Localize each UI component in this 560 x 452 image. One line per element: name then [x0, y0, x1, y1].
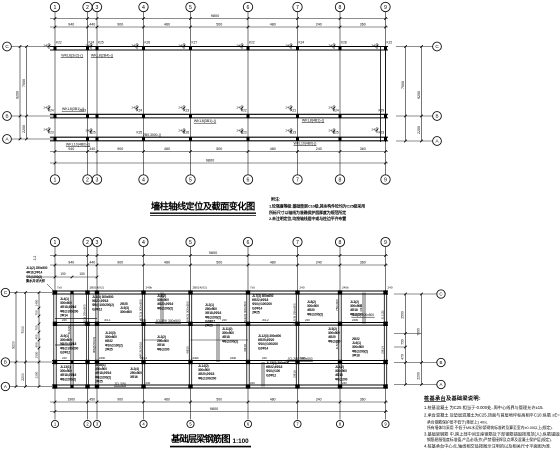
svg-text:7000: 7000	[21, 326, 25, 334]
axis circle B left (top drawing)	[3, 112, 12, 121]
svg-text:墙柱轴线定位及截面变化图: 墙柱轴线定位及截面变化图	[151, 201, 255, 212]
svg-text:2Φ25: 2Φ25	[252, 310, 260, 314]
svg-text:240: 240	[286, 43, 291, 47]
svg-text:5: 5	[189, 5, 192, 11]
left dim line detail (bottom drawing)	[38, 293, 40, 387]
svg-text:9: 9	[384, 240, 387, 246]
svg-text:K25: K25	[137, 131, 143, 135]
svg-text:7000: 7000	[417, 328, 421, 336]
grid line axis 4 (bottom drawing)	[143, 247, 145, 293]
svg-text:1: 1	[54, 240, 57, 246]
svg-text:3: 3	[96, 5, 99, 11]
axis circle 9 bottom (bottom drawing)	[382, 420, 389, 427]
svg-text:2-2: 2-2	[33, 255, 37, 260]
svg-text:240: 240	[44, 105, 49, 109]
svg-text:750x300: 750x300	[335, 299, 339, 311]
svg-text:360: 360	[360, 23, 366, 27]
axis circle 5 bottom (bottom drawing)	[187, 420, 194, 427]
axis circle 5 bottom (top drawing)	[186, 175, 195, 184]
axis circle 2 bottom (top drawing)	[83, 175, 92, 184]
svg-text:7: 7	[296, 5, 299, 11]
beam annotation block	[222, 327, 238, 343]
svg-text:JCL3(9): JCL3(9)	[114, 382, 126, 386]
svg-text:240: 240	[237, 43, 242, 47]
svg-text:WKL10(4B0)-(): WKL10(4B0)-()	[66, 143, 90, 147]
beam annotation block	[60, 334, 78, 354]
foundation beam axis 2	[85, 293, 87, 387]
svg-text:C: C	[439, 292, 442, 297]
svg-text:2.未注明定位,均按轴线居中或与柱边平齐布置: 2.未注明定位,均按轴线居中或与柱边平齐布置	[269, 215, 346, 221]
svg-text:240b: 240b	[230, 356, 237, 360]
svg-text:240: 240	[44, 43, 49, 47]
interior beam x72	[70, 293, 72, 387]
axis circle 6 bottom (top drawing)	[243, 175, 252, 184]
svg-text:700: 700	[35, 310, 39, 315]
svg-text:4Φ18: 4Φ18	[359, 304, 363, 312]
axis circle 8 bottom (bottom drawing)	[336, 420, 343, 427]
foundation beam axis 9	[383, 293, 385, 387]
svg-text:2200: 2200	[417, 126, 421, 134]
axis circle 3 bottom (bottom drawing)	[93, 420, 100, 427]
beam annotation block	[352, 337, 368, 357]
axis circle A right (bottom drawing)	[437, 380, 445, 388]
svg-text:Φ8@200(2): Φ8@200(2)	[92, 337, 96, 353]
svg-text:480: 480	[270, 398, 276, 402]
svg-text:K28: K28	[341, 41, 347, 45]
svg-text:940: 940	[68, 23, 74, 27]
svg-text:2: 2	[86, 240, 89, 246]
svg-text:3Φ16: 3Φ16	[130, 375, 138, 379]
grid line axis 7 (bottom drawing)	[297, 247, 299, 293]
svg-text:K21: K21	[291, 109, 297, 113]
grid line axis 6 (bottom drawing)	[247, 247, 249, 293]
svg-text:9800: 9800	[211, 14, 219, 18]
total dim line (bottom drawing top)	[50, 255, 388, 257]
svg-text:1400: 1400	[35, 299, 39, 306]
svg-text:附注:: 附注:	[271, 196, 280, 202]
svg-text:所标尺寸以轴线为准确保护层厚度为规范所定: 所标尺寸以轴线为准确保护层厚度为规范所定	[268, 209, 346, 215]
beam annotation block	[105, 331, 123, 351]
bottom total dim line (top drawing)	[50, 162, 388, 164]
svg-text:240: 240	[329, 128, 334, 132]
svg-text:K22: K22	[249, 41, 255, 45]
left dim line outer (bottom drawing)	[15, 293, 17, 387]
axis circle 2 bottom (bottom drawing)	[84, 420, 91, 427]
svg-text:240: 240	[250, 381, 255, 385]
svg-text:700: 700	[35, 325, 39, 330]
grid line axis 3 (top drawing)	[96, 12, 98, 142]
svg-text:K24: K24	[299, 41, 305, 45]
foundation beam axis 4	[141, 293, 143, 387]
row A axis line stub	[11, 138, 55, 140]
leader line	[47, 284, 55, 292]
svg-text:桩基承台及基础梁说明:: 桩基承台及基础梁说明:	[424, 394, 481, 402]
svg-text:K24: K24	[137, 109, 143, 113]
svg-text:9: 9	[384, 177, 387, 183]
grid line axis 5 (bottom drawing)	[190, 247, 192, 293]
svg-text:K22: K22	[387, 41, 393, 45]
svg-text:190: 190	[60, 272, 66, 276]
interior beam x364	[362, 293, 364, 324]
foundation beam row A	[52, 384, 388, 386]
axis circle 1 top	[50, 2, 59, 11]
svg-text:A: A	[440, 382, 443, 387]
svg-text:钢筋屈服强度标准值,产品必须(作)严禁搭接焊及点焊及混凝土保: 钢筋屈服强度标准值,产品必须(作)严禁搭接焊及点焊及混凝土保护层(规定).	[427, 437, 552, 442]
svg-text:2B014(X2): 2B014(X2)	[90, 285, 104, 289]
svg-text:JCL2: JCL2	[262, 318, 269, 322]
svg-text:2200: 2200	[22, 125, 26, 133]
svg-text:9200: 9200	[16, 91, 20, 99]
svg-text:900: 900	[117, 261, 123, 265]
svg-text:2: 2	[86, 5, 89, 11]
interior beam seg	[55, 318, 97, 320]
axis circle C left (bottom drawing)	[1, 288, 9, 296]
svg-text:900: 900	[35, 342, 39, 347]
svg-text:3: 3	[96, 240, 99, 246]
axis circle 3 top	[92, 2, 101, 11]
svg-text:3Φ18;2Φ16: 3Φ18;2Φ16	[139, 342, 143, 358]
svg-text:K25: K25	[98, 41, 104, 45]
interior beam seg3	[191, 339, 249, 341]
beam annotation block	[157, 335, 170, 351]
svg-text:6: 6	[247, 5, 250, 11]
svg-text:JL2(3) 250x500: JL2(3) 250x500	[293, 303, 297, 325]
axis circle A left (bottom drawing)	[1, 382, 9, 390]
svg-text:240: 240	[179, 105, 184, 109]
svg-text:240: 240	[146, 381, 151, 385]
svg-text:450: 450	[35, 334, 39, 339]
wall row A (top drawing)	[50, 136, 388, 138]
svg-text:8: 8	[339, 5, 342, 11]
svg-text:240: 240	[372, 127, 377, 131]
svg-text:K23: K23	[184, 109, 190, 113]
svg-text:JL1(2) 250x500: JL1(2) 250x500	[26, 266, 48, 270]
sub dim line left (bottom drawing)	[30, 276, 97, 278]
svg-text:360: 360	[360, 398, 366, 402]
grid line axis 2 (bottom drawing)	[87, 247, 89, 293]
svg-text:JL5(1) 300x500: JL5(1) 300x500	[352, 313, 374, 317]
axis circle 8 top	[335, 2, 344, 11]
svg-text:500: 500	[216, 261, 222, 265]
svg-text:240: 240	[86, 43, 91, 47]
svg-text:440: 440	[89, 261, 95, 265]
grid line axis 8 (bottom drawing)	[339, 247, 341, 293]
svg-text:7000: 7000	[22, 79, 26, 87]
beam annotation block	[328, 327, 341, 343]
axis circle 1 bottom (bottom drawing)	[51, 420, 58, 427]
svg-text:900: 900	[117, 147, 123, 151]
foundation beam row C	[52, 290, 388, 292]
svg-text:2Φ14: 2Φ14	[381, 346, 385, 354]
axis circle A left (top drawing)	[3, 135, 12, 144]
grid line axis 1 (bottom drawing)	[54, 247, 56, 293]
beam annotation block	[60, 365, 76, 381]
axis circle 4 bottom (top drawing)	[139, 175, 148, 184]
svg-text:B: B	[4, 360, 7, 365]
axis circle 4 top	[139, 2, 148, 11]
svg-text:240: 240	[62, 356, 67, 360]
axis circle C right (bottom drawing)	[437, 290, 445, 298]
axis circle 5 top	[186, 2, 195, 11]
svg-text:500: 500	[216, 147, 222, 151]
svg-text:240: 240	[179, 43, 184, 47]
foundation beam axis 8	[338, 293, 340, 387]
svg-text:7000: 7000	[401, 81, 405, 89]
grid line axis 9 (top drawing)	[385, 12, 387, 142]
axis circle A right (top drawing)	[433, 137, 442, 146]
foundation beam row B	[52, 360, 388, 362]
svg-text:集水井详大样: 集水井详大样	[25, 278, 46, 283]
svg-text:8: 8	[339, 240, 342, 246]
svg-text:WKL8(2B4)-(): WKL8(2B4)-()	[91, 54, 113, 58]
svg-text:2200: 2200	[35, 371, 39, 378]
top total dimension line	[50, 18, 388, 20]
svg-text:WKL8(3B1)-(): WKL8(3B1)-()	[194, 119, 216, 123]
svg-text:900: 900	[117, 23, 123, 27]
svg-text:240b: 240b	[300, 356, 307, 360]
foundation beam axis 6	[246, 293, 248, 387]
svg-text:WKL8(4B1)-(): WKL8(4B1)-()	[302, 119, 324, 123]
axis circle 8 bottom (top drawing)	[335, 175, 344, 184]
beam annotation block	[130, 367, 142, 379]
svg-text:9800: 9800	[209, 251, 217, 255]
axis circle 4 top (bottom drawing)	[139, 237, 148, 246]
svg-text:470: 470	[401, 354, 405, 360]
svg-text:2Φ25: 2Φ25	[95, 379, 103, 383]
svg-text:240: 240	[132, 43, 137, 47]
svg-text:G2Φ12: G2Φ12	[60, 350, 70, 354]
svg-text:JCL1(9) 300x500: JCL1(9) 300x500	[155, 319, 180, 323]
svg-text:A: A	[4, 384, 7, 389]
svg-text:JL9(2) 300x500: JL9(2) 300x500	[243, 301, 247, 323]
grid line axis 5 (top drawing)	[190, 12, 192, 142]
svg-text:4.桩基承台中心点,轴线相交处按图示注明的以及相关尺寸平面图: 4.桩基承台中心点,轴线相交处按图示注明的以及相关尺寸平面图为准.	[424, 443, 551, 450]
left annotation block (bottom drawing)	[25, 266, 48, 283]
svg-text:K27: K27	[192, 41, 198, 45]
axis circle 7 bottom (top drawing)	[293, 175, 302, 184]
bottom segment dim line (top drawing)	[50, 151, 388, 153]
svg-text:Φ8@200(2): Φ8@200(2)	[157, 306, 173, 310]
svg-text:B: B	[5, 114, 8, 119]
svg-text:K26: K26	[145, 41, 151, 45]
svg-text:4Φ16;2Φ14: 4Φ16;2Φ14	[26, 270, 42, 274]
left dim line outer	[19, 47, 21, 140]
svg-text:360: 360	[360, 147, 366, 151]
columns row A	[54, 138, 57, 141]
svg-text:2: 2	[86, 177, 89, 183]
left dim line inner (bottom drawing)	[25, 293, 27, 387]
svg-text:240: 240	[305, 318, 310, 322]
svg-text:1.砼强度等级:基础垫层C10级,其余构件砼均为C25级采用: 1.砼强度等级:基础垫层C10级,其余构件砼均为C25级采用	[269, 203, 365, 209]
svg-text:240: 240	[222, 318, 227, 322]
svg-text:940: 940	[68, 261, 74, 265]
axis circle 9 top (bottom drawing)	[381, 237, 390, 246]
svg-text:240: 240	[316, 398, 322, 402]
svg-text:3.基础梁钢筋 中,跨上部中间支座钢筋及下部钢筋锚固按规范(: 3.基础梁钢筋 中,跨上部中间支座钢筋及下部钢筋锚固按规范(人),纵筋锚固23d…	[424, 431, 560, 438]
svg-text:2Φ14: 2Φ14	[60, 313, 68, 317]
svg-text:3Φ18: 3Φ18	[243, 344, 247, 352]
axis circle 4 bottom (bottom drawing)	[140, 420, 147, 427]
svg-text:2500: 2500	[401, 311, 405, 319]
beam annotation block	[198, 364, 216, 380]
svg-text:440: 440	[89, 23, 95, 27]
svg-text:750: 750	[401, 339, 405, 345]
svg-text:150: 150	[79, 272, 85, 276]
grid line axis 4 (top drawing)	[143, 12, 145, 142]
svg-text:K23: K23	[379, 131, 385, 135]
svg-text:900: 900	[117, 398, 123, 402]
svg-text:1.桩基混凝土 为C25 相当于-0.000处..周中心线界: 1.桩基混凝土 为C25 相当于-0.000处..周中心线界与管理允许±15.	[424, 404, 544, 411]
beam annotation block	[307, 300, 323, 316]
svg-text:2Φ16: 2Φ16	[293, 370, 297, 378]
segment dim line (bottom drawing bottom)	[50, 401, 388, 403]
columns row C	[54, 47, 57, 50]
beam annotation block	[205, 303, 221, 328]
svg-text:WKL10(4B0)-(): WKL10(4B0)-()	[294, 142, 317, 146]
svg-text:9200: 9200	[417, 91, 421, 99]
svg-text:WKL8(3B1)-(): WKL8(3B1)-()	[62, 107, 84, 111]
foundation beam axis 7	[295, 293, 297, 387]
svg-text:C: C	[4, 290, 7, 295]
svg-text:480: 480	[270, 147, 276, 151]
svg-text:240: 240	[329, 43, 334, 47]
beam annotation block	[258, 334, 281, 350]
svg-text:240: 240	[342, 381, 347, 385]
svg-text:6: 6	[247, 240, 250, 246]
svg-text:240b: 240b	[352, 318, 359, 322]
svg-text:3: 3	[96, 177, 99, 183]
svg-text:G2Φ14: G2Φ14	[258, 346, 268, 350]
svg-text:240: 240	[316, 147, 322, 151]
svg-text:8: 8	[339, 177, 342, 183]
foundation beam mid row	[55, 322, 388, 324]
svg-text:1: 1	[54, 5, 57, 11]
grid line axis 7 (top drawing)	[297, 12, 299, 142]
wall row C (top drawing)	[50, 46, 388, 48]
svg-text:2Φ25: 2Φ25	[205, 324, 213, 328]
svg-text:B: B	[440, 360, 443, 365]
svg-text:G2Φ12: G2Φ12	[266, 373, 276, 377]
svg-text:480: 480	[164, 398, 170, 402]
svg-text:JCL1: JCL1	[104, 318, 111, 322]
svg-text:1: 1	[54, 177, 57, 183]
svg-text:240: 240	[237, 105, 242, 109]
axis circle 1 bottom (top drawing)	[50, 175, 59, 184]
axis circle 6 top	[243, 2, 252, 11]
svg-text:240b: 240b	[193, 356, 200, 360]
axis circle 7 top	[293, 2, 302, 11]
beam annotation block	[157, 294, 173, 310]
svg-text:240: 240	[316, 23, 322, 27]
svg-text:240: 240	[44, 127, 49, 131]
svg-text:9200: 9200	[12, 341, 16, 349]
svg-text:440: 440	[89, 147, 95, 151]
svg-text:G2Φ12: G2Φ12	[92, 307, 102, 311]
axis circle B right (top drawing)	[433, 112, 442, 121]
svg-text:500: 500	[216, 23, 222, 27]
beam annotation block	[350, 300, 363, 316]
svg-text:240: 240	[86, 128, 91, 132]
axis circle 2 top (bottom drawing)	[83, 237, 92, 246]
svg-text:940: 940	[68, 147, 74, 151]
svg-text:9800: 9800	[206, 159, 214, 163]
svg-text:7: 7	[296, 240, 299, 246]
foundation beam axis 3	[95, 293, 97, 387]
axis circle 1 top (bottom drawing)	[50, 237, 59, 246]
svg-text:2Φ25: 2Φ25	[105, 347, 113, 351]
small offset dimension marks (240) top drawing	[48, 43, 50, 49]
svg-text:JL8(2) 300x500: JL8(2) 300x500	[186, 301, 190, 323]
svg-text:240: 240	[262, 356, 267, 360]
axis circle B right (bottom drawing)	[437, 358, 445, 366]
svg-text:JL1(2): JL1(2)	[381, 311, 385, 320]
svg-text:JL5(1): JL5(1)	[335, 341, 339, 350]
right dimension column (bottom drawing)	[394, 293, 437, 295]
svg-text:4Φ20: 4Φ20	[186, 346, 190, 354]
interior beam x263	[261, 362, 263, 387]
svg-text:300x600: 300x600	[120, 310, 132, 314]
svg-text:1500: 1500	[35, 351, 39, 358]
wall row B (top drawing)	[50, 113, 388, 115]
axis circle 6 bottom (bottom drawing)	[244, 420, 251, 427]
svg-text:240: 240	[316, 261, 322, 265]
svg-text:2B0.3000-(): 2B0.3000-()	[143, 133, 161, 137]
svg-text:240: 240	[300, 285, 305, 289]
svg-text:1900: 1900	[67, 398, 75, 402]
svg-text:360: 360	[360, 261, 366, 265]
svg-text:2B014(X2): 2B014(X2)	[193, 285, 207, 289]
svg-text:240: 240	[286, 105, 291, 109]
axis circle 8 top (bottom drawing)	[335, 237, 344, 246]
svg-text:Φ8@100/200: Φ8@100/200	[198, 376, 216, 380]
grid line axis 8 (top drawing)	[339, 12, 341, 142]
beam annotation block	[60, 297, 78, 317]
svg-text:480: 480	[164, 23, 170, 27]
svg-text:Φ8@200(2): Φ8@200(2)	[60, 377, 76, 381]
svg-text:450: 450	[89, 398, 95, 402]
foundation beam axis 5	[188, 293, 190, 387]
top segment dimension line	[50, 26, 388, 28]
axis circle 2 top	[83, 2, 92, 11]
svg-text:240: 240	[62, 318, 67, 322]
svg-text:240b: 240b	[99, 356, 106, 360]
beam annotation block	[92, 295, 114, 311]
grid line axis 3 (bottom drawing)	[96, 247, 98, 293]
beam annotation block	[120, 302, 132, 314]
axis circle 6 top (bottom drawing)	[243, 237, 252, 246]
axis circle 3 bottom (top drawing)	[92, 175, 101, 184]
svg-text:1:100: 1:100	[233, 438, 250, 445]
interior beam seg2	[55, 344, 72, 346]
svg-text:4: 4	[142, 240, 145, 246]
svg-text:所有墙体均采用 不低于M5水泥砂浆砌筑标准砖及算至室内±0.: 所有墙体均采用 不低于M5水泥砂浆砌筑标准砖及算至室内±0.00以上(规定).	[427, 425, 553, 430]
axis circle 5 top (bottom drawing)	[186, 237, 195, 246]
svg-text:K29: K29	[379, 109, 385, 113]
axis circle C right (top drawing)	[433, 42, 442, 51]
beam annotation block	[335, 365, 348, 381]
svg-text:240: 240	[329, 105, 334, 109]
svg-text:基础层梁钢筋图: 基础层梁钢筋图	[170, 433, 230, 444]
svg-text:7x0: 7x0	[57, 285, 62, 289]
right wall (top drawing)	[380, 47, 382, 143]
svg-text:500: 500	[216, 398, 222, 402]
row C axis line stub	[11, 46, 55, 48]
interior beam x162	[160, 293, 162, 324]
svg-text:6: 6	[247, 177, 250, 183]
svg-text:Φ8@200: Φ8@200	[157, 347, 170, 351]
beam annotation block	[95, 363, 111, 383]
svg-text:240b: 240b	[342, 285, 349, 289]
